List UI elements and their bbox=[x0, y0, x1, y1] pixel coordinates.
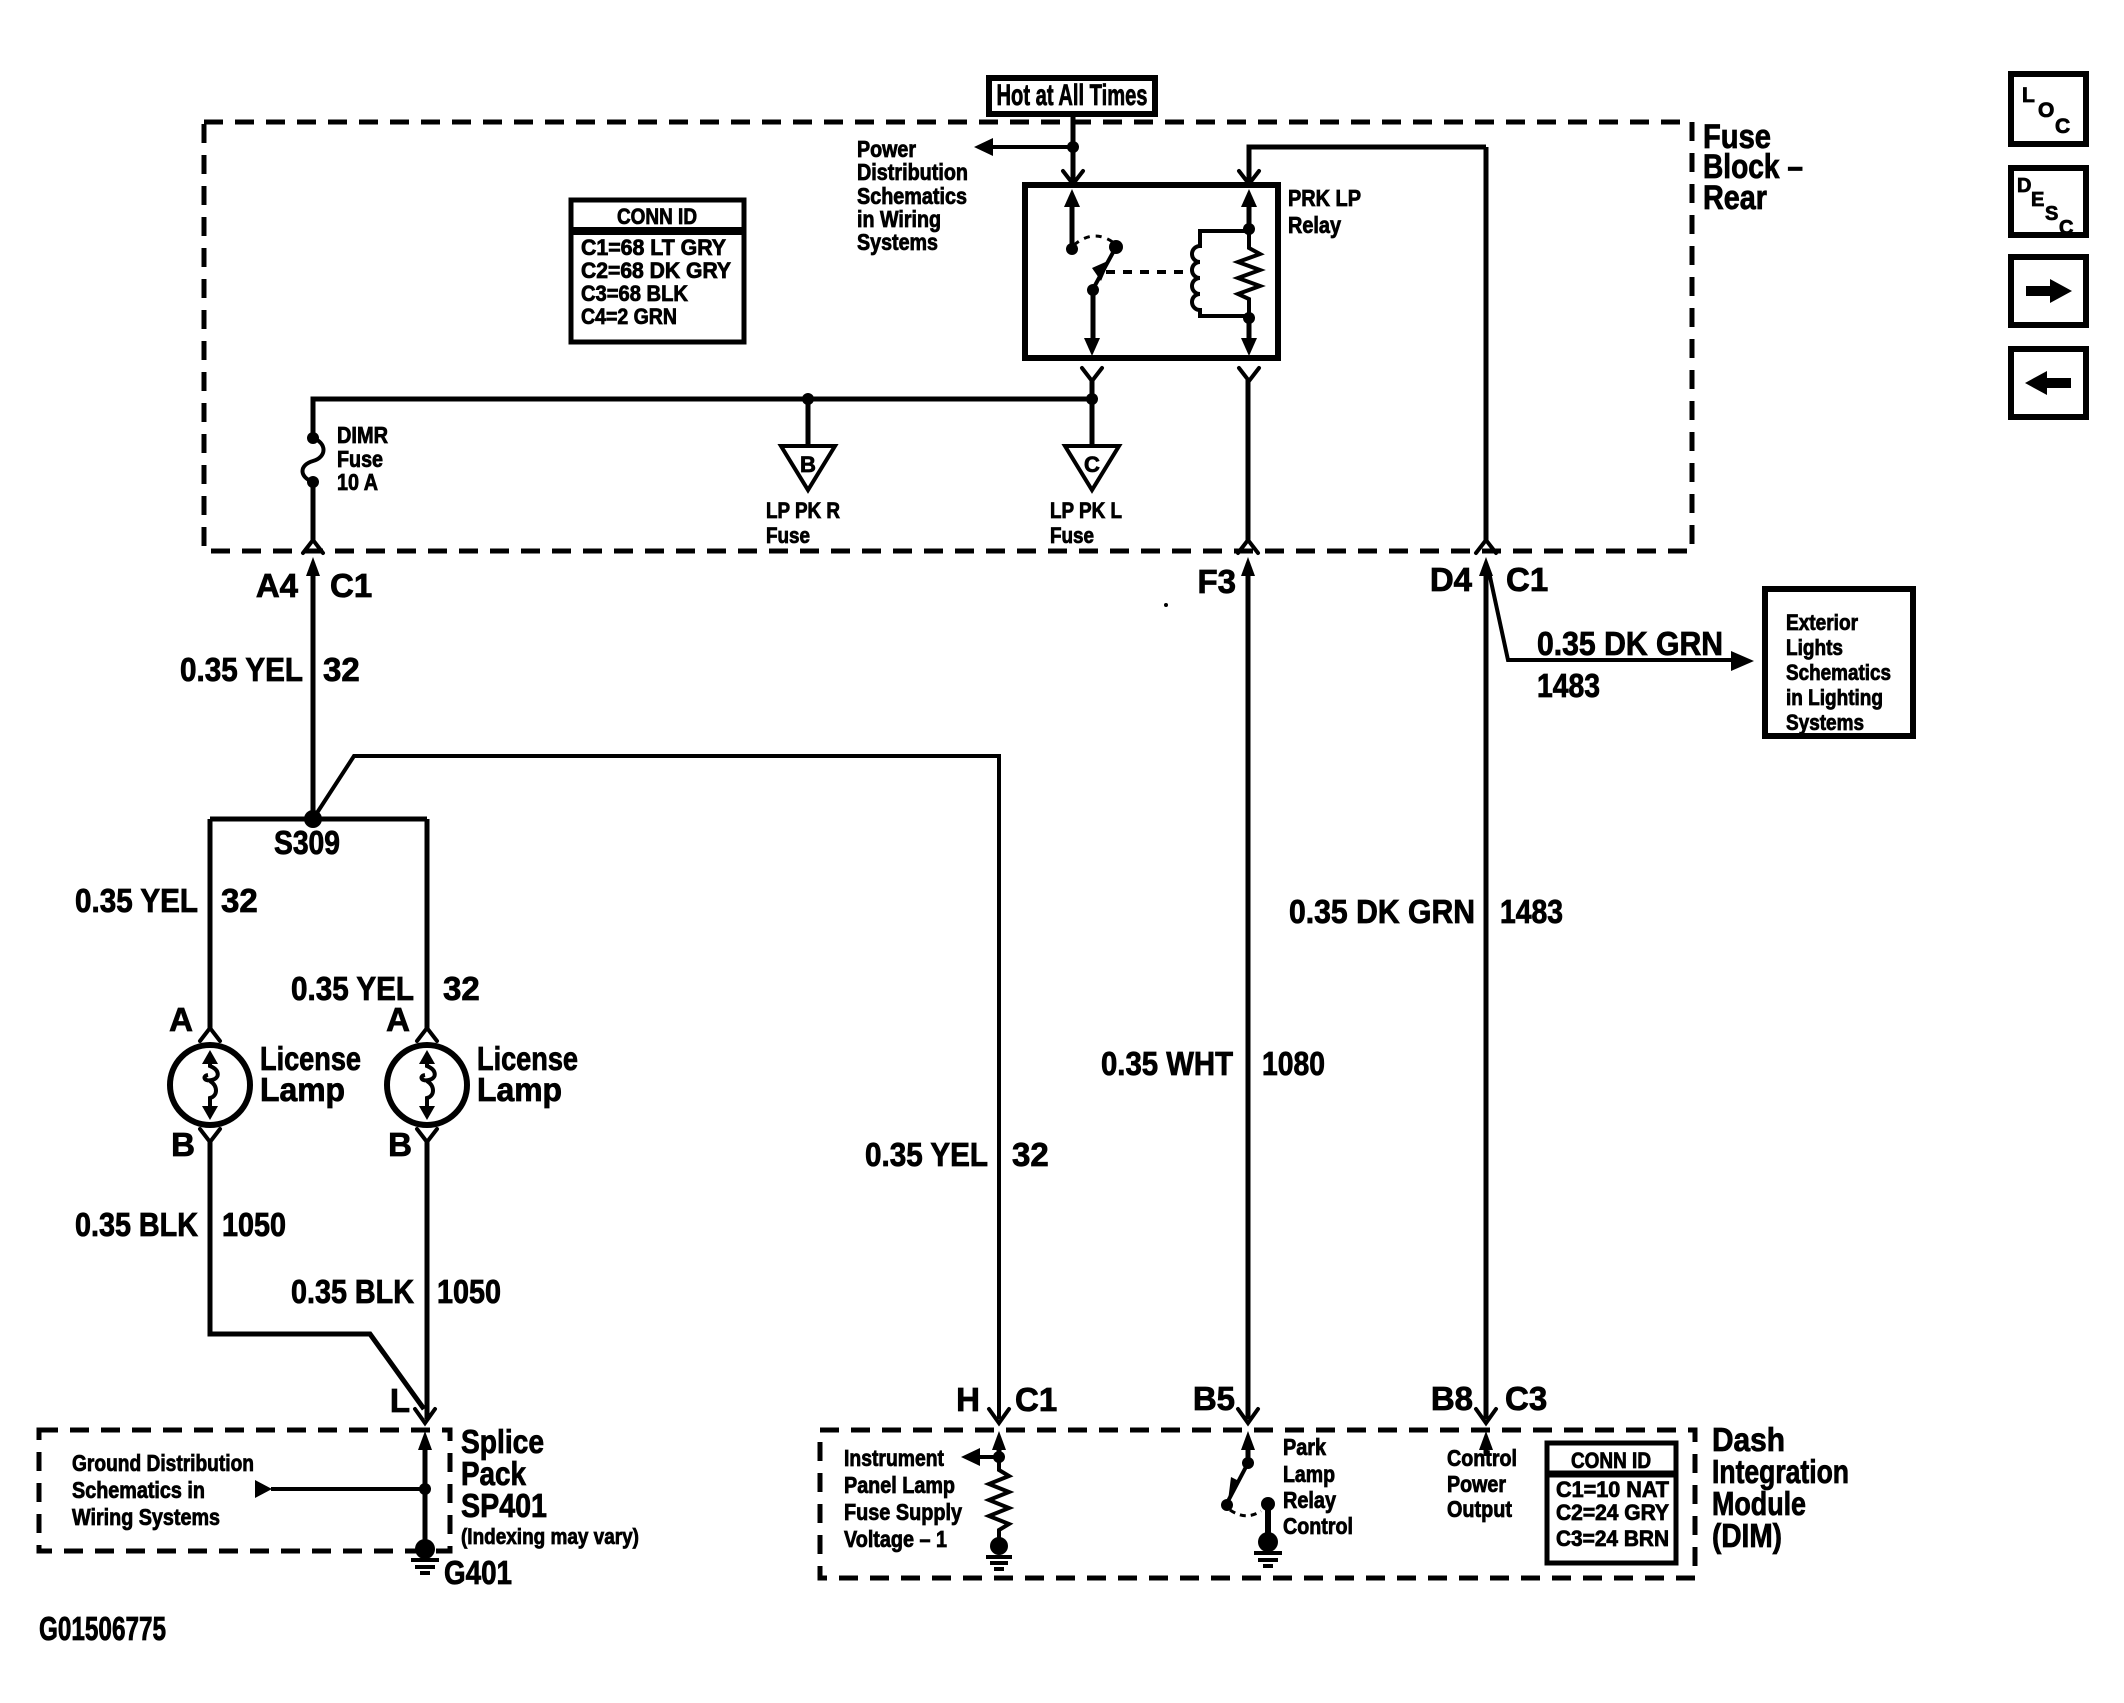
svg-text:L: L bbox=[390, 1382, 410, 1419]
node relay switch fixed contact bbox=[1066, 243, 1078, 255]
svg-text:D4: D4 bbox=[1430, 561, 1473, 598]
svg-text:S: S bbox=[2045, 203, 2058, 225]
arrow B8 inside DIM bbox=[1479, 1431, 1493, 1450]
wire D4 to B8 bbox=[1484, 570, 1489, 1419]
svg-text:0.35 BLK: 0.35 BLK bbox=[75, 1206, 198, 1243]
svg-text:Panel Lamp: Panel Lamp bbox=[844, 1472, 955, 1498]
svg-text:Fuse: Fuse bbox=[766, 523, 810, 548]
svg-text:1483: 1483 bbox=[1500, 893, 1563, 930]
node park lamp contact bbox=[1261, 1497, 1275, 1511]
relay switch arm bbox=[1093, 247, 1116, 289]
svg-text:C: C bbox=[2055, 115, 2070, 138]
svg-text:Distribution: Distribution bbox=[857, 159, 968, 185]
wire A4 to S309 bbox=[311, 570, 316, 819]
svg-text:Fuse: Fuse bbox=[1050, 523, 1094, 548]
svg-text:G401: G401 bbox=[444, 1554, 512, 1591]
node relay coil top bbox=[1243, 223, 1255, 235]
arrow to exterior lights box bbox=[1731, 651, 1754, 671]
relay resistor (parallel with coil) bbox=[1238, 229, 1260, 318]
ground inside DIM (park lamp) bbox=[1258, 1532, 1278, 1552]
arrow L below edge bbox=[418, 1431, 432, 1450]
svg-text:0.35 YEL: 0.35 YEL bbox=[180, 651, 303, 688]
svg-text:Output: Output bbox=[1447, 1496, 1512, 1522]
wire right lamp to splice pack bbox=[425, 1141, 430, 1419]
svg-text:CONN ID: CONN ID bbox=[617, 204, 697, 229]
wire to power distribution reference bbox=[992, 145, 1073, 149]
svg-text:C1=68 LT GRY: C1=68 LT GRY bbox=[581, 235, 726, 260]
svg-text:Relay: Relay bbox=[1283, 1487, 1336, 1513]
svg-text:Lamp: Lamp bbox=[1283, 1461, 1335, 1487]
svg-text:in Lighting: in Lighting bbox=[1786, 685, 1883, 710]
svg-text:H: H bbox=[956, 1381, 980, 1418]
svg-text:C4=2 GRN: C4=2 GRN bbox=[581, 304, 677, 329]
svg-text:0.35 YEL: 0.35 YEL bbox=[865, 1136, 988, 1173]
svg-text:(DIM): (DIM) bbox=[1712, 1517, 1782, 1554]
connector at relay pin 2 top bbox=[1239, 171, 1259, 184]
fuse C LP PK L triangle bbox=[1065, 446, 1119, 490]
svg-text:E: E bbox=[2031, 189, 2044, 211]
svg-text:G01506775: G01506775 bbox=[39, 1610, 166, 1647]
svg-text:0.35 DK GRN: 0.35 DK GRN bbox=[1537, 625, 1723, 662]
icon box DESC bbox=[2011, 168, 2086, 235]
hot at all times box bbox=[989, 78, 1155, 114]
svg-text:C2=68 DK GRY: C2=68 DK GRY bbox=[581, 258, 731, 283]
svg-text:LP PK L: LP PK L bbox=[1050, 498, 1122, 523]
svg-text:Lamp: Lamp bbox=[260, 1071, 345, 1108]
relay switch dashed throw arc bbox=[1074, 236, 1114, 245]
ground G401 bbox=[415, 1539, 435, 1559]
dashed arc park lamp switch bbox=[1230, 1510, 1261, 1516]
svg-text:(Indexing may vary): (Indexing may vary) bbox=[461, 1524, 639, 1549]
wire bus from DIMR fuse to C fuse bbox=[313, 399, 1092, 438]
svg-text:1050: 1050 bbox=[222, 1206, 286, 1243]
svg-text:Relay: Relay bbox=[1288, 212, 1341, 238]
wire F3 to B5 bbox=[1246, 570, 1251, 1419]
icon box LOC bbox=[2011, 74, 2086, 144]
wire relay pin 3 to F3 bbox=[1246, 380, 1251, 541]
conn id table (DIM) bbox=[1547, 1443, 1676, 1563]
node instrument branch junction bbox=[993, 1451, 1005, 1463]
svg-text:Control: Control bbox=[1283, 1513, 1353, 1539]
svg-text:0.35 YEL: 0.35 YEL bbox=[75, 882, 198, 919]
relay pin 4 arrow (inside bottom) bbox=[1241, 338, 1257, 356]
conn id table (fuse block) bbox=[571, 200, 744, 342]
svg-text:32: 32 bbox=[323, 651, 360, 688]
svg-text:Systems: Systems bbox=[857, 229, 938, 255]
connector F3 at fuse block edge bbox=[1238, 540, 1258, 553]
node park lamp switch top bbox=[1242, 1457, 1254, 1469]
fuse block rear dashed outline bbox=[204, 122, 1692, 551]
svg-text:L: L bbox=[2022, 84, 2035, 107]
svg-text:D: D bbox=[2017, 175, 2031, 197]
relay coil pin arrow (pin 2, inside top) bbox=[1241, 189, 1257, 207]
svg-text:Instrument: Instrument bbox=[844, 1445, 944, 1471]
exterior lights reference box bbox=[1765, 589, 1913, 736]
wire to ground distribution reference bbox=[271, 1487, 425, 1491]
svg-text:C: C bbox=[2059, 217, 2073, 239]
svg-text:32: 32 bbox=[443, 970, 480, 1007]
connector B5 at DIM edge bbox=[1238, 1409, 1258, 1423]
svg-text:Power: Power bbox=[1447, 1471, 1506, 1497]
wire relay switch pin to bus and C fuse bbox=[1090, 380, 1095, 446]
node splice pack junction bbox=[419, 1483, 431, 1495]
wire D4 vertical from top bus bbox=[1484, 147, 1489, 541]
connector A right lamp bbox=[417, 1028, 437, 1041]
svg-text:B5: B5 bbox=[1193, 1380, 1235, 1417]
ground distribution dashed box bbox=[39, 1430, 450, 1551]
wire relay switch to bottom pin bbox=[1091, 290, 1096, 340]
wire S309 to instrument panel branch bbox=[313, 756, 999, 1419]
svg-text:C: C bbox=[1084, 452, 1100, 477]
svg-text:Exterior: Exterior bbox=[1786, 610, 1858, 635]
svg-text:10 A: 10 A bbox=[337, 469, 378, 495]
svg-text:C3=24 BRN: C3=24 BRN bbox=[1556, 1526, 1669, 1551]
svg-text:Schematics: Schematics bbox=[1786, 660, 1891, 685]
wire branch to exterior lights bbox=[1489, 572, 1732, 660]
icon box arrow left bbox=[2011, 349, 2086, 417]
node park lamp switch bottom bbox=[1221, 1499, 1233, 1511]
connector at relay pin 1 top bbox=[1063, 171, 1083, 184]
wire B fuse drop bbox=[806, 399, 811, 446]
svg-text:Hot at All Times: Hot at All Times bbox=[997, 79, 1148, 112]
node bus junction at B fuse bbox=[802, 393, 814, 405]
arrow A4 below edge bbox=[306, 557, 320, 576]
arrow F3 below edge bbox=[1241, 557, 1255, 576]
svg-text:1483: 1483 bbox=[1537, 667, 1600, 704]
svg-text:Park: Park bbox=[1283, 1434, 1326, 1460]
node relay coil bottom bbox=[1243, 312, 1255, 324]
fuse B LP PK R triangle bbox=[781, 446, 835, 490]
svg-text:0.35 DK GRN: 0.35 DK GRN bbox=[1289, 893, 1475, 930]
svg-text:SP401: SP401 bbox=[461, 1487, 547, 1524]
connector relay pin 3 bottom bbox=[1082, 368, 1102, 381]
connector D4 at fuse block edge bbox=[1476, 540, 1496, 553]
node bus end at C fuse bbox=[1086, 393, 1098, 405]
wire left lamp feed bbox=[208, 819, 213, 1029]
wire left lamp to splice pack bbox=[210, 1141, 424, 1409]
icon box arrow right bbox=[2011, 257, 2086, 325]
svg-text:LP PK R: LP PK R bbox=[766, 498, 840, 523]
svg-text:1050: 1050 bbox=[437, 1273, 501, 1310]
svg-text:32: 32 bbox=[221, 882, 258, 919]
arrow to power distribution bbox=[974, 138, 993, 156]
svg-text:C1: C1 bbox=[330, 567, 372, 604]
arrow D4 below edge bbox=[1479, 557, 1493, 576]
svg-text:C1=10 NAT: C1=10 NAT bbox=[1556, 1477, 1670, 1502]
connector B right lamp bbox=[417, 1129, 437, 1142]
svg-text:C1: C1 bbox=[1015, 1381, 1057, 1418]
svg-text:B: B bbox=[800, 452, 816, 477]
wire park lamp contact to ground bbox=[1265, 1504, 1271, 1535]
park lamp relay switch arm bbox=[1227, 1463, 1248, 1503]
svg-text:Ground Distribution: Ground Distribution bbox=[72, 1450, 254, 1476]
connector A4 at fuse block edge bbox=[303, 540, 323, 553]
svg-text:PRK LP: PRK LP bbox=[1288, 185, 1361, 211]
node relay switch arm bottom bbox=[1087, 284, 1099, 296]
connector H at DIM edge bbox=[989, 1409, 1009, 1423]
scan speck (noise dot) bbox=[1164, 603, 1168, 607]
svg-text:C1: C1 bbox=[1506, 561, 1548, 598]
svg-text:Wiring Systems: Wiring Systems bbox=[72, 1504, 220, 1530]
relay switch pin arrow (pin 1, inside top) bbox=[1064, 189, 1080, 207]
connector relay pin 4 bottom bbox=[1239, 368, 1259, 381]
arrow B5 inside DIM bbox=[1241, 1431, 1255, 1450]
svg-text:Fuse Supply: Fuse Supply bbox=[844, 1499, 962, 1525]
wire L to G401 bbox=[423, 1444, 428, 1542]
connector L at splice pack bbox=[415, 1409, 435, 1423]
wire right lamp feed bbox=[425, 819, 430, 1029]
svg-text:Schematics in: Schematics in bbox=[72, 1477, 205, 1503]
lamp left License Lamp bbox=[170, 1045, 250, 1125]
svg-text:C2=24 GRY: C2=24 GRY bbox=[1556, 1500, 1669, 1525]
arrow H inside DIM bbox=[992, 1431, 1006, 1450]
svg-text:32: 32 bbox=[1012, 1136, 1049, 1173]
relay coil winding bbox=[1192, 231, 1249, 316]
svg-text:A: A bbox=[386, 1001, 410, 1038]
dash integration module dashed box bbox=[820, 1430, 1695, 1578]
svg-text:B: B bbox=[388, 1126, 412, 1163]
svg-text:S309: S309 bbox=[274, 824, 340, 861]
svg-text:F3: F3 bbox=[1197, 563, 1236, 600]
connector B8 at DIM edge bbox=[1476, 1409, 1496, 1423]
svg-text:Control: Control bbox=[1447, 1445, 1517, 1471]
lamp right License Lamp bbox=[387, 1045, 467, 1125]
connector A left lamp bbox=[200, 1028, 220, 1041]
relay pin 3 arrow (inside bottom) bbox=[1084, 338, 1100, 356]
ground inside DIM (instrument) bbox=[990, 1537, 1008, 1555]
wire S309 lamp branch header bbox=[210, 817, 427, 822]
svg-text:1080: 1080 bbox=[1262, 1045, 1325, 1082]
svg-text:Rear: Rear bbox=[1703, 179, 1767, 217]
svg-text:Voltage – 1: Voltage – 1 bbox=[844, 1526, 947, 1552]
svg-text:C3=68 BLK: C3=68 BLK bbox=[581, 281, 688, 306]
svg-text:B: B bbox=[171, 1126, 195, 1163]
svg-text:O: O bbox=[2038, 99, 2054, 122]
svg-text:Lights: Lights bbox=[1786, 635, 1843, 660]
node relay switch moving contact bbox=[1109, 240, 1123, 254]
fuse DIMR 10A bbox=[307, 432, 319, 444]
wire hot feed down bbox=[1071, 114, 1076, 181]
svg-text:A: A bbox=[169, 1001, 193, 1038]
node hot junction bbox=[1067, 141, 1079, 153]
arrow ground distribution reference bbox=[255, 1480, 272, 1498]
svg-text:B8: B8 bbox=[1431, 1380, 1473, 1417]
svg-text:Systems: Systems bbox=[1786, 710, 1864, 735]
wire DIMR fuse to A4 bbox=[311, 482, 316, 542]
arrow instrument reference bbox=[961, 1448, 980, 1466]
svg-text:C3: C3 bbox=[1505, 1380, 1547, 1417]
wire coil feed top bbox=[1249, 147, 1486, 181]
relay actuation dashed link bbox=[1106, 270, 1188, 274]
svg-text:0.35 BLK: 0.35 BLK bbox=[291, 1273, 414, 1310]
resistor instrument panel (inside DIM) bbox=[989, 1457, 1009, 1538]
svg-text:0.35 WHT: 0.35 WHT bbox=[1101, 1045, 1233, 1082]
connector B left lamp bbox=[200, 1129, 220, 1142]
wire relay coil to bottom pin bbox=[1247, 318, 1252, 340]
relay U1 PRK LP Relay box bbox=[1025, 185, 1278, 358]
svg-text:CONN ID: CONN ID bbox=[1571, 1448, 1651, 1473]
svg-text:DIMR: DIMR bbox=[337, 422, 388, 448]
wire to instrument reference bbox=[980, 1455, 999, 1459]
node S309 splice bbox=[304, 810, 322, 828]
svg-text:Lamp: Lamp bbox=[477, 1071, 562, 1108]
svg-text:A4: A4 bbox=[256, 567, 299, 604]
